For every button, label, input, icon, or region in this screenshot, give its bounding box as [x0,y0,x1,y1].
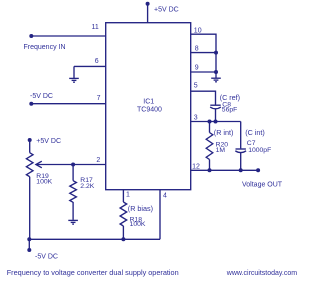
svg-text:12: 12 [192,163,200,170]
wire pin 10 with corner [191,34,216,72]
capacitor C7 [235,149,246,170]
wire pin 7 -5V DC [31,103,105,105]
svg-text:(R bias): (R bias) [128,204,153,213]
wire pin 9 [191,71,216,73]
ground below R17 [68,220,78,224]
wire pin 1 stem [122,190,124,202]
wire R17 bottom stem to ground [72,202,74,220]
svg-text:(R int): (R int) [214,128,234,137]
svg-text:TC9400: TC9400 [137,107,162,114]
ground top right [211,78,221,82]
node +5V top [146,2,150,6]
svg-text:-5V DC: -5V DC [30,93,53,100]
svg-text:C7: C7 [247,140,256,147]
svg-text:+5V DC: +5V DC [36,138,61,145]
wire pin 8 [191,52,216,54]
svg-text:11: 11 [92,24,99,31]
resistor R19 zigzag [26,153,33,177]
svg-text:Voltage OUT: Voltage OUT [242,181,283,188]
svg-text:6: 6 [95,58,99,65]
resistor R20 zigzag [206,133,213,160]
svg-text:2.2K: 2.2K [80,183,94,190]
wire ground stem top right [215,72,217,78]
wire pin 6 vertical to ground [73,66,75,78]
svg-text:4: 4 [163,193,167,200]
ground pin 6 [69,78,79,82]
svg-text:Frequency to voltage converter: Frequency to voltage converter dual supp… [7,268,179,277]
svg-text:5: 5 [194,83,198,90]
arrow head on pin 2 wire (points to R19 wiper) [36,161,42,168]
svg-text:100K: 100K [36,178,52,185]
node junction R18 rail [121,237,125,241]
svg-text:IC1: IC1 [143,98,154,105]
node -5V terminal pin7 [29,102,33,106]
svg-text:-5V DC: -5V DC [35,253,58,260]
svg-text:8: 8 [195,46,199,53]
op-amp U1 IC1 TC9400 body [106,23,191,190]
wire R20 top stem [209,122,211,133]
svg-text:1: 1 [126,192,130,199]
svg-text:(C ref): (C ref) [220,93,240,102]
svg-text:Frequency IN: Frequency IN [24,44,66,51]
resistor R17 zigzag [70,181,77,203]
wire -5V terminal stub [28,239,30,250]
node Voltage OUT terminal [256,168,260,172]
wire pin 11 Frequency IN [31,35,105,37]
node junction -5V rail left [27,237,31,241]
wire pin 2 [37,164,106,166]
svg-text:10: 10 [194,27,202,34]
svg-text:56pF: 56pF [222,107,238,114]
wire +5V stem to IC top [147,4,149,23]
resistor R18 zigzag [120,202,127,226]
wire C7 top stem [240,122,242,149]
svg-text:3: 3 [194,115,198,122]
wire R17 top stem [72,165,74,181]
svg-text:7: 7 [97,95,101,102]
wire pin 5 to C8 [191,91,216,104]
svg-text:1M: 1M [216,147,226,154]
wire -5V rail [29,238,160,240]
wire pin 12 Voltage OUT [191,169,258,171]
wire R19 bottom to -5V rail [29,177,31,240]
svg-text:9: 9 [195,65,199,72]
node junction R20 pin12 [208,168,212,172]
node junction R17 pin2 [71,163,75,167]
capacitor C8 [210,105,221,121]
svg-text:100K: 100K [130,221,146,228]
node +5V left terminal [28,138,32,142]
svg-text:+5V DC: +5V DC [154,7,179,14]
wire pin 4 [159,190,161,240]
wire R18 bottom to rail [122,226,124,239]
node junction R20 pin3 [208,120,212,124]
wire pin 6 horizontal [74,65,106,67]
wire +5V left stem [29,140,31,153]
node -5V terminal bottom [27,248,31,252]
node junction pin 9 [214,70,218,74]
svg-text:1000pF: 1000pF [248,147,271,154]
svg-text:www.circuitstoday.com: www.circuitstoday.com [226,270,297,277]
wire R20 bottom stem [209,160,211,171]
node junction C7 pin12 [239,168,243,172]
node Frequency IN terminal [29,34,33,38]
svg-text:2: 2 [96,157,100,164]
svg-text:(C int): (C int) [245,128,265,137]
node junction C8 pin3 [214,120,218,124]
wire pin 3 [191,121,241,123]
node junction pin 8 [214,51,218,55]
